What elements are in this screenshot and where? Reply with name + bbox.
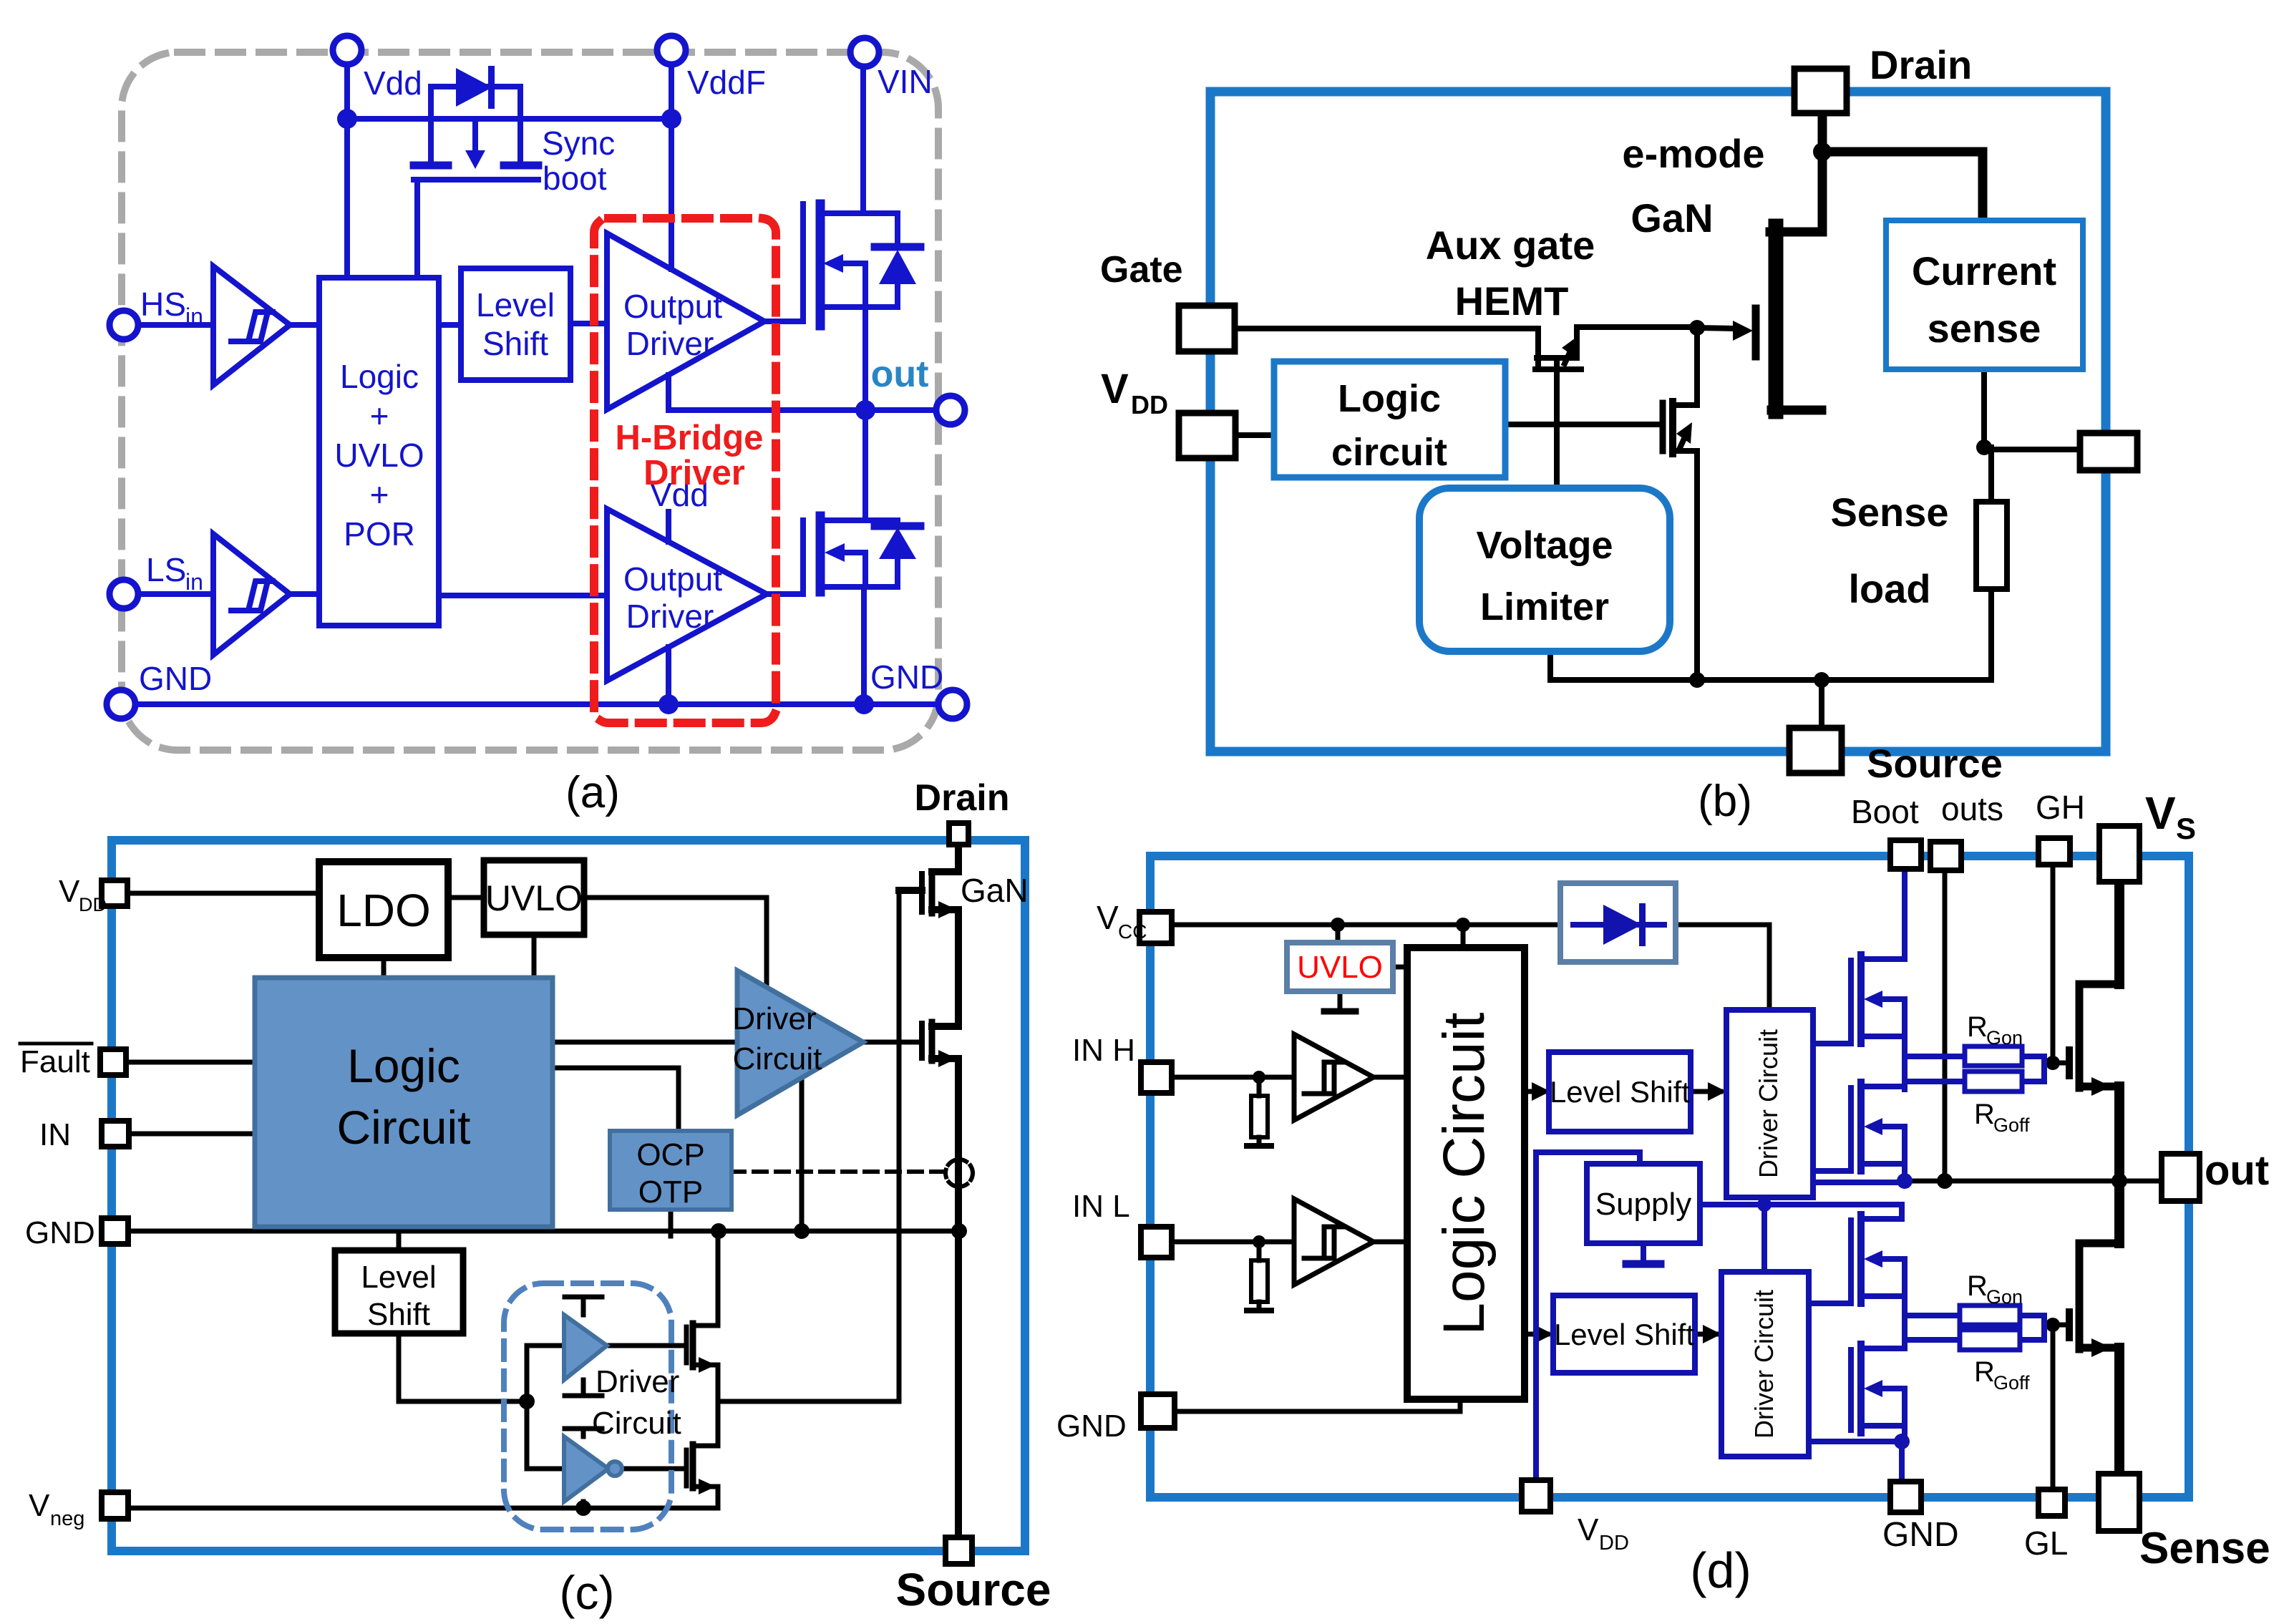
svg-text:Logic: Logic	[1338, 377, 1441, 420]
svg-text:LDO: LDO	[336, 885, 431, 936]
svg-text:Level Shift: Level Shift	[1550, 1075, 1690, 1109]
svg-text:GL: GL	[2024, 1525, 2068, 1562]
svg-text:IN: IN	[39, 1117, 71, 1152]
svg-text:GH: GH	[2036, 789, 2085, 826]
svg-text:GND: GND	[1056, 1409, 1127, 1444]
svg-text:e-mode: e-mode	[1622, 131, 1764, 176]
svg-text:Vdd: Vdd	[364, 64, 422, 102]
svg-text:GaN: GaN	[961, 872, 1029, 909]
svg-text:V: V	[29, 1488, 50, 1523]
svg-text:in: in	[185, 569, 203, 595]
svg-text:Source: Source	[1867, 741, 2003, 786]
svg-text:IN H: IN H	[1072, 1033, 1135, 1068]
svg-text:R: R	[1967, 1011, 1988, 1043]
svg-text:Driver: Driver	[626, 598, 714, 635]
svg-text:VddF: VddF	[687, 64, 766, 101]
svg-text:Gate: Gate	[1100, 249, 1183, 291]
svg-text:OCP: OCP	[636, 1137, 704, 1172]
svg-text:+: +	[370, 397, 389, 434]
svg-text:out: out	[2205, 1147, 2269, 1194]
svg-text:outs: outs	[1941, 790, 2003, 827]
svg-text:(d): (d)	[1690, 1542, 1751, 1598]
svg-text:V: V	[1578, 1512, 1599, 1547]
svg-text:GND: GND	[139, 660, 212, 697]
svg-text:boot: boot	[543, 160, 607, 197]
svg-text:HS: HS	[140, 286, 186, 323]
svg-text:Limiter: Limiter	[1480, 585, 1609, 628]
svg-text:VIN: VIN	[878, 63, 933, 100]
svg-text:GND: GND	[25, 1215, 95, 1250]
svg-text:Driver Circuit: Driver Circuit	[1749, 1290, 1779, 1439]
svg-text:V: V	[1101, 366, 1129, 412]
svg-text:Fault: Fault	[20, 1044, 90, 1079]
svg-text:Source: Source	[896, 1564, 1051, 1615]
svg-text:Driver: Driver	[732, 1001, 816, 1036]
svg-text:Driver Circuit: Driver Circuit	[1754, 1029, 1783, 1178]
svg-text:GaN: GaN	[1631, 195, 1713, 240]
svg-text:Driver: Driver	[596, 1364, 679, 1399]
svg-text:UVLO: UVLO	[1297, 950, 1383, 985]
svg-text:CC: CC	[1118, 920, 1147, 943]
svg-text:OTP: OTP	[638, 1175, 703, 1210]
svg-text:Boot: Boot	[1851, 793, 1919, 830]
svg-text:sense: sense	[1928, 306, 2041, 351]
svg-text:R: R	[1967, 1270, 1988, 1302]
svg-text:UVLO: UVLO	[334, 437, 424, 474]
svg-text:R: R	[1974, 1099, 1995, 1130]
svg-text:in: in	[185, 303, 203, 329]
svg-text:Shift: Shift	[367, 1297, 430, 1332]
svg-text:LS: LS	[146, 551, 186, 588]
svg-text:HEMT: HEMT	[1455, 278, 1569, 324]
svg-text:(b): (b)	[1698, 777, 1752, 826]
svg-text:Shift: Shift	[482, 325, 548, 362]
svg-text:Logic Circuit: Logic Circuit	[1432, 1012, 1497, 1335]
svg-text:GND: GND	[870, 658, 943, 696]
svg-text:Voltage: Voltage	[1476, 524, 1613, 567]
svg-text:Circuit: Circuit	[733, 1041, 822, 1076]
svg-text:load: load	[1848, 566, 1930, 611]
svg-text:S: S	[2176, 812, 2196, 845]
svg-text:Drain: Drain	[1870, 42, 1972, 87]
svg-text:Gon: Gon	[1986, 1027, 2023, 1049]
svg-text:H-Bridge: H-Bridge	[616, 419, 764, 457]
svg-text:IN L: IN L	[1072, 1189, 1130, 1224]
svg-text:Output: Output	[623, 560, 722, 598]
svg-text:circuit: circuit	[1331, 431, 1447, 474]
svg-text:Circuit: Circuit	[592, 1406, 681, 1441]
svg-text:Level: Level	[476, 286, 555, 324]
svg-text:DD: DD	[1131, 390, 1168, 419]
svg-text:Goff: Goff	[1993, 1372, 2030, 1394]
svg-text:Sense: Sense	[1831, 490, 1949, 535]
svg-text:Drain: Drain	[915, 777, 1010, 819]
svg-text:GND: GND	[1882, 1516, 1959, 1554]
svg-text:Sense: Sense	[2139, 1524, 2270, 1573]
svg-text:Output: Output	[623, 288, 722, 325]
svg-text:V: V	[2145, 787, 2176, 839]
svg-text:Driver: Driver	[626, 325, 714, 362]
svg-text:+: +	[370, 476, 389, 513]
svg-text:DD: DD	[79, 894, 107, 915]
svg-text:V: V	[59, 874, 80, 909]
svg-text:Logic: Logic	[347, 1039, 460, 1092]
svg-text:V: V	[1097, 899, 1119, 936]
svg-text:Current: Current	[1912, 248, 2056, 293]
svg-text:out: out	[871, 354, 929, 395]
svg-text:UVLO: UVLO	[485, 878, 583, 918]
svg-text:Sync: Sync	[542, 125, 615, 162]
svg-text:Circuit: Circuit	[336, 1101, 470, 1154]
svg-text:DD: DD	[1599, 1532, 1629, 1555]
svg-text:Aux gate: Aux gate	[1426, 223, 1595, 268]
svg-text:(c): (c)	[560, 1566, 615, 1619]
svg-text:Supply: Supply	[1595, 1187, 1692, 1222]
svg-text:Goff: Goff	[1993, 1114, 2030, 1136]
svg-text:neg: neg	[50, 1507, 84, 1530]
svg-text:(a): (a)	[565, 768, 620, 817]
svg-text:Level Shift: Level Shift	[1554, 1318, 1694, 1351]
svg-text:Gon: Gon	[1986, 1286, 2023, 1308]
svg-text:Logic: Logic	[340, 358, 419, 395]
svg-text:Level: Level	[361, 1260, 436, 1295]
svg-text:R: R	[1974, 1356, 1995, 1388]
svg-text:POR: POR	[344, 515, 415, 553]
svg-text:Driver: Driver	[643, 454, 745, 492]
